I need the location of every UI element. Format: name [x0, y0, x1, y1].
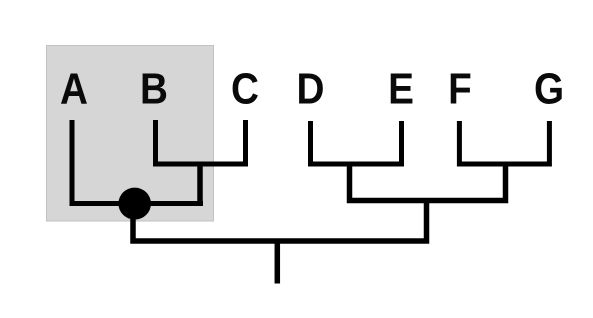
- root stem: [275, 241, 281, 284]
- branch: tips B and C with connecting horizontal (clade BC): [156, 120, 246, 164]
- node: filled circle at A+(BC) junction: [118, 188, 151, 220]
- branch: tips F and G with connecting horizontal (clade FG): [459, 121, 549, 164]
- svg-text:C: C: [231, 63, 259, 113]
- svg-text:B: B: [140, 63, 168, 113]
- svg-text:E: E: [388, 63, 414, 113]
- svg-text:G: G: [534, 63, 564, 113]
- branch: tip A down to A+(BC) junction and horizontal to BC stem: [72, 120, 203, 204]
- svg-text:A: A: [60, 63, 88, 113]
- wire: BC clade stem down to A+(BC) junction: [197, 164, 203, 205]
- wire: left stem below node, root horizontal, DEFG stem up: [133, 201, 427, 242]
- wire: DE stem, DEFG horizontal, FG stem: [350, 164, 506, 201]
- branch: tips D and E with connecting horizontal (clade DE): [311, 121, 402, 164]
- highlight box around clade A+B: [47, 46, 214, 222]
- svg-text:F: F: [448, 63, 472, 113]
- svg-text:D: D: [297, 63, 325, 113]
